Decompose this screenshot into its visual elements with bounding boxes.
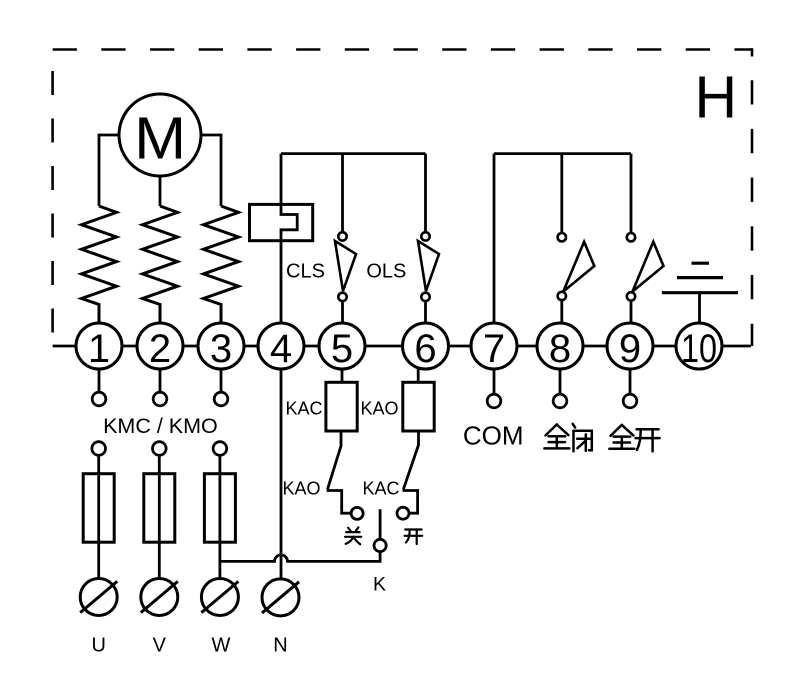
S9 open switch blade [633, 242, 664, 292]
thermal protector TP outline [250, 204, 313, 240]
terminal 7 [471, 323, 517, 369]
terminal 1 [76, 323, 122, 369]
wire OLS to terminal 6 [424, 301, 427, 323]
ground symbol short bar [692, 262, 710, 265]
contact circle under terminal 1 [92, 392, 106, 406]
label 关 glyph [348, 528, 350, 531]
OLS top contact circle [421, 232, 429, 240]
S9 bottom contact circle [627, 292, 635, 300]
svg-text:10: 10 [681, 327, 717, 371]
wire motor right to node 3 [201, 135, 222, 206]
svg-text:6: 6 [414, 327, 436, 371]
wire through fuse F1 [97, 455, 100, 578]
ground symbol long bar [662, 291, 738, 294]
svg-text:V: V [153, 635, 167, 657]
svg-text:CLS: CLS [286, 261, 325, 283]
wire terminal 5 to coil KAC [341, 369, 344, 382]
CLS bottom contact circle [338, 293, 346, 301]
OLS bottom contact circle [421, 293, 429, 301]
svg-text:N: N [273, 635, 287, 657]
fuse F2 [144, 474, 175, 543]
svg-text:7: 7 [483, 327, 505, 371]
terminal 2 [137, 323, 183, 369]
enclosure dashed border top-right corner leg [751, 48, 754, 56]
wire motor left to node 1 [99, 135, 120, 206]
fuse F1 [83, 474, 114, 543]
signal contact circle under terminal 8 [553, 394, 567, 408]
CLS top contact circle [338, 232, 346, 240]
wire terminal 4 riser with detour [281, 154, 297, 323]
label 全闭 glyph 闭 [573, 424, 575, 428]
motor M1 circle [119, 94, 201, 176]
terminal 3 [198, 323, 244, 369]
svg-text:H: H [694, 65, 737, 131]
terminal 4 [258, 323, 304, 369]
S8 bottom contact circle [558, 292, 566, 300]
wire terminal 4 to N [280, 369, 283, 579]
S9 top contact circle [627, 233, 635, 241]
terminal 9 [607, 323, 653, 369]
resistor winding R2 [143, 206, 178, 323]
supply terminal U circle [80, 579, 117, 616]
CLS switch blade [335, 241, 356, 291]
wire to switch S8 top [560, 154, 563, 233]
svg-text:3: 3 [210, 327, 232, 371]
fuse F3 [204, 474, 235, 543]
svg-text:8: 8 [549, 327, 571, 371]
svg-text:KAO: KAO [282, 479, 320, 499]
wire CLS to terminal 5 [341, 301, 344, 323]
supply contact circle V side [153, 442, 167, 456]
svg-text:M: M [134, 106, 186, 172]
relay coil KAO [403, 382, 434, 431]
wire ground to terminal 10 [698, 293, 701, 324]
terminal 5 [319, 323, 365, 369]
wire W to K with hop over N wire [220, 552, 380, 562]
supply terminal N circle [262, 579, 299, 616]
svg-text:K: K [373, 573, 386, 595]
wire terminal 7 riser [493, 154, 496, 323]
label 全开 glyph 全 [611, 425, 622, 436]
S8 top contact circle [558, 233, 566, 241]
wire top bus nodes 7-8-9 [494, 152, 631, 155]
wire motor bottom to node 2 [159, 176, 162, 207]
terminal 10 [676, 323, 722, 369]
svg-text:KMC / KMO: KMC / KMO [103, 414, 218, 438]
contact KAO blade [328, 431, 342, 489]
svg-text:KAO: KAO [361, 398, 399, 418]
contact circle under terminal 2 [153, 392, 167, 406]
enclosure dashed border top [53, 48, 752, 51]
svg-text:OLS: OLS [366, 261, 406, 283]
svg-text:U: U [91, 635, 105, 657]
enclosure dashed border left [51, 71, 54, 346]
wire through fuse F2 [158, 455, 161, 578]
wire terminal 6 to coil KAO [417, 368, 420, 383]
supply contact circle W side [213, 442, 227, 456]
svg-text:9: 9 [619, 327, 641, 371]
svg-text:KAC: KAC [362, 479, 399, 499]
label 开 glyph (button) [405, 528, 421, 530]
enclosure dashed border right [751, 80, 754, 346]
svg-text:W: W [211, 635, 230, 657]
wire terminal 1 lower stub [98, 369, 101, 392]
svg-text:2: 2 [149, 327, 171, 371]
svg-text:KAC: KAC [285, 398, 322, 418]
button close contact circle [351, 507, 363, 519]
S8 open switch blade [563, 242, 594, 292]
signal contact circle under terminal 9 [623, 394, 637, 408]
button open contact circle [397, 507, 409, 519]
svg-text:COM: COM [463, 421, 524, 451]
wire S9 to terminal 9 [630, 301, 633, 324]
wire to OLS top [424, 154, 427, 233]
wire terminal 3 lower stub [220, 369, 223, 392]
wire to CLS top [341, 154, 344, 233]
contact KAC blade [403, 431, 418, 489]
terminal 8 [537, 323, 583, 369]
supply terminal W circle [201, 579, 238, 616]
resistor winding R3 [204, 206, 239, 323]
switch K hinge circle [374, 539, 386, 551]
terminal bus line [53, 345, 751, 348]
OLS switch blade [418, 241, 439, 291]
wire terminal 9 lower stub [629, 369, 632, 394]
switch K blade [379, 509, 382, 539]
resistor winding R1 [82, 206, 117, 323]
supply terminal V circle [141, 579, 178, 616]
contact KAO seat [327, 491, 351, 514]
wire terminal 8 lower stub [559, 369, 562, 394]
relay coil KAC [326, 382, 357, 431]
signal contact circle under terminal 7 [487, 394, 501, 408]
label 全闭 glyph 全 [546, 425, 557, 436]
svg-text:4: 4 [270, 327, 292, 371]
terminal 6 [403, 323, 449, 369]
contact KAC seat [403, 491, 418, 514]
wire terminal 2 lower stub [159, 369, 162, 392]
svg-text:5: 5 [331, 327, 353, 371]
contact circle under terminal 3 [214, 392, 228, 406]
svg-text:1: 1 [88, 327, 110, 371]
label 全开 glyph 开 [637, 428, 659, 431]
wire terminal 7 lower stub [493, 369, 496, 394]
wire S8 to terminal 8 [560, 300, 563, 323]
ground symbol middle bar [677, 276, 723, 279]
wire to switch S9 top [630, 154, 633, 233]
supply contact circle U side [92, 442, 106, 456]
wire top bus nodes 4-5-6 [281, 152, 426, 155]
wire through fuse F3 [218, 455, 221, 578]
